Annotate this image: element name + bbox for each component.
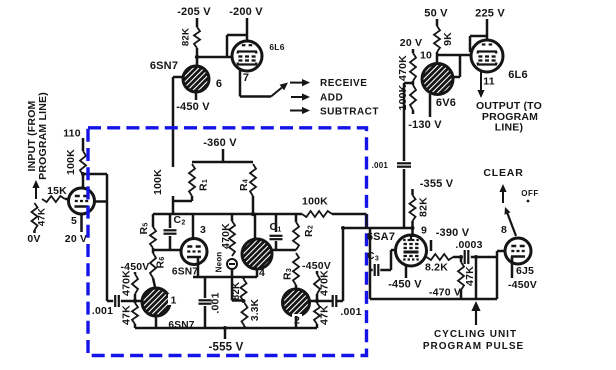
svg-text:47K: 47K — [37, 208, 48, 226]
svg-text:100K: 100K — [152, 169, 164, 195]
svg-text:82K: 82K — [231, 282, 242, 301]
svg-text:4: 4 — [259, 267, 265, 279]
svg-text:-555 V: -555 V — [208, 342, 243, 354]
svg-text:.0003: .0003 — [455, 239, 482, 251]
svg-text:11: 11 — [483, 76, 495, 88]
svg-text:6L6: 6L6 — [269, 42, 284, 52]
svg-text:Neon: Neon — [215, 252, 224, 273]
svg-text:15K: 15K — [47, 185, 67, 197]
svg-text:110: 110 — [63, 128, 81, 140]
svg-text:R4: R4 — [238, 179, 250, 191]
svg-text:20 V: 20 V — [400, 37, 422, 49]
svg-text:R3: R3 — [282, 268, 294, 280]
svg-text:.001: .001 — [372, 161, 389, 170]
svg-text:3.3K: 3.3K — [250, 298, 261, 321]
svg-text:100K: 100K — [65, 149, 77, 175]
svg-text:470K: 470K — [220, 223, 232, 249]
svg-text:-390 V: -390 V — [436, 227, 470, 239]
svg-text:5: 5 — [71, 215, 77, 227]
svg-text:82K: 82K — [418, 197, 430, 217]
svg-text:47K: 47K — [319, 305, 331, 325]
svg-text:100K: 100K — [397, 84, 409, 110]
svg-text:ADD: ADD — [320, 93, 343, 104]
svg-text:0V: 0V — [27, 233, 40, 245]
svg-text:82K: 82K — [181, 28, 192, 46]
svg-text:R2: R2 — [303, 225, 315, 237]
svg-text:100K: 100K — [302, 196, 328, 208]
svg-text:CYCLING UNIT: CYCLING UNIT — [434, 329, 517, 340]
svg-text:6SN7: 6SN7 — [168, 320, 194, 331]
svg-text:8: 8 — [501, 224, 507, 236]
svg-text:-450 V: -450 V — [176, 101, 210, 113]
svg-text:3: 3 — [200, 224, 206, 236]
svg-text:-200 V: -200 V — [229, 6, 263, 18]
svg-text:-355 V: -355 V — [420, 178, 454, 190]
svg-text:470K: 470K — [319, 270, 331, 296]
svg-text:1: 1 — [170, 295, 176, 307]
svg-text:SUBTRACT: SUBTRACT — [320, 107, 379, 118]
svg-text:CLEAR: CLEAR — [483, 167, 523, 179]
svg-text:C1: C1 — [270, 221, 282, 234]
svg-text:7: 7 — [243, 72, 249, 84]
svg-text:-450 V: -450 V — [388, 279, 422, 291]
svg-text:-450V: -450V — [508, 279, 537, 291]
svg-text:-205 V: -205 V — [177, 6, 211, 18]
svg-text:20 V: 20 V — [65, 233, 87, 245]
svg-text:50 V: 50 V — [424, 8, 448, 20]
svg-text:470K: 470K — [397, 55, 409, 81]
svg-text:.001: .001 — [340, 306, 361, 318]
svg-text:-130 V: -130 V — [408, 119, 442, 131]
svg-text:6SN7: 6SN7 — [150, 60, 178, 72]
svg-text:8.2K: 8.2K — [425, 262, 448, 274]
svg-text:470K: 470K — [121, 270, 133, 296]
svg-text:C3: C3 — [367, 250, 379, 263]
svg-text:.001: .001 — [210, 292, 222, 313]
svg-text:6J5: 6J5 — [516, 265, 534, 277]
svg-text:-470 V: -470 V — [429, 287, 461, 299]
svg-text:9K: 9K — [442, 32, 454, 46]
svg-text:C2: C2 — [174, 214, 186, 227]
svg-text:9: 9 — [421, 225, 427, 237]
svg-text:OFF: OFF — [521, 189, 539, 198]
svg-text:225 V: 225 V — [475, 8, 505, 20]
svg-text:-360 V: -360 V — [203, 137, 237, 149]
svg-text:6L6: 6L6 — [508, 69, 528, 81]
svg-text:R1: R1 — [198, 179, 210, 191]
svg-text:R5: R5 — [138, 223, 150, 235]
svg-text:PROGRAM LINE): PROGRAM LINE) — [37, 92, 49, 180]
svg-text:47K: 47K — [121, 305, 133, 325]
svg-text:.001: .001 — [92, 305, 113, 317]
svg-text:6V6: 6V6 — [436, 97, 456, 109]
svg-text:PROGRAM PULSE: PROGRAM PULSE — [423, 341, 524, 352]
svg-text:LINE): LINE) — [495, 122, 523, 134]
svg-text:47K: 47K — [464, 266, 476, 286]
svg-text:10: 10 — [420, 50, 432, 62]
svg-text:RECEIVE: RECEIVE — [320, 78, 367, 89]
svg-text:6: 6 — [216, 78, 222, 90]
